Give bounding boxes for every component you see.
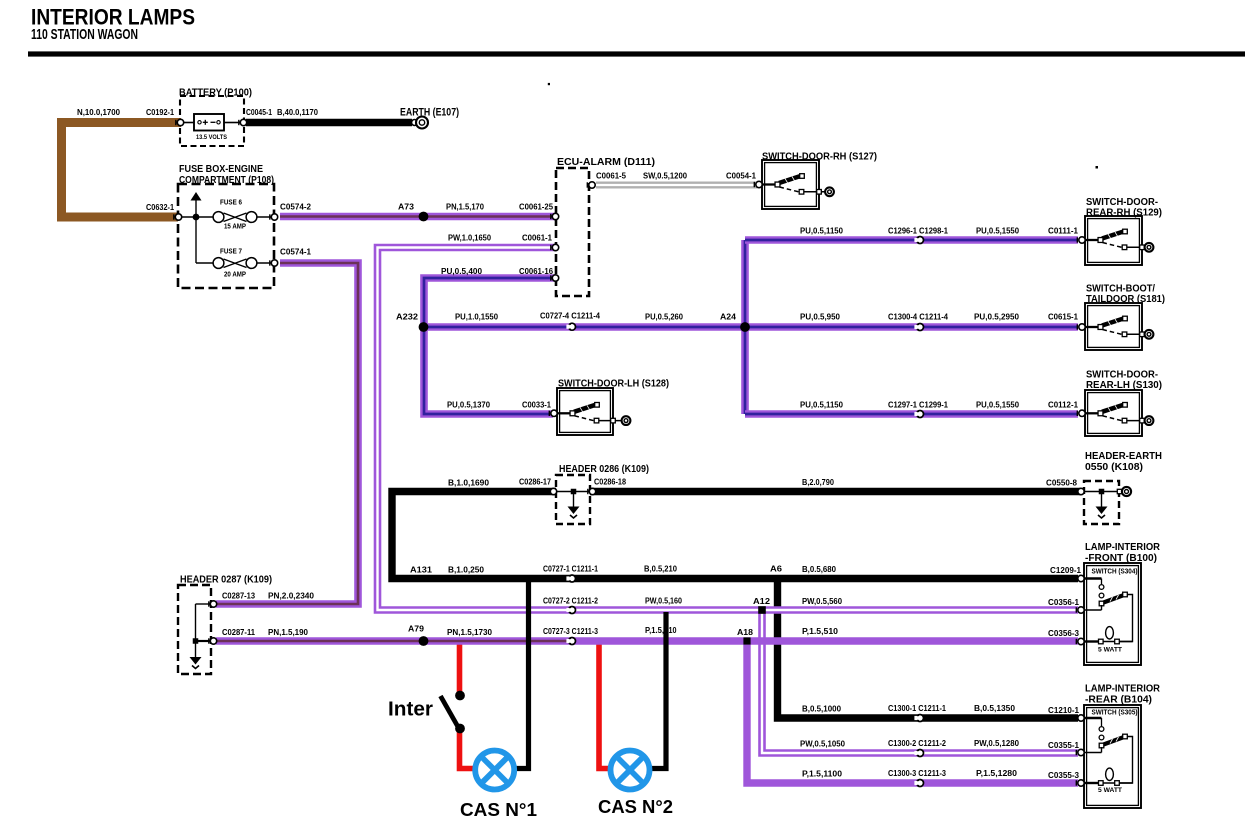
svg-text:B,0.5,210: B,0.5,210: [644, 565, 678, 574]
svg-text:C1209-1: C1209-1: [1050, 566, 1082, 575]
svg-text:C0061-1: C0061-1: [522, 234, 553, 243]
svg-text:Inter: Inter: [388, 699, 433, 721]
svg-text:P,1.5,: P,1.5,: [645, 626, 664, 635]
svg-text:0550 (K108): 0550 (K108): [1085, 462, 1143, 473]
svg-text:C0287-13: C0287-13: [222, 592, 256, 601]
svg-text:PW,0.5,160: PW,0.5,160: [645, 597, 682, 606]
svg-text:C0287-11: C0287-11: [222, 628, 256, 637]
svg-text:C0356-1: C0356-1: [1048, 598, 1080, 607]
svg-text:C0355-1: C0355-1: [1048, 741, 1080, 750]
svg-text:A73: A73: [398, 203, 415, 212]
svg-text:PN,1.5,170: PN,1.5,170: [446, 203, 485, 212]
svg-text:A232: A232: [396, 313, 419, 322]
svg-text:P,1.5,1280: P,1.5,1280: [976, 769, 1018, 778]
svg-text:TAILDOOR (S181): TAILDOOR (S181): [1086, 294, 1165, 305]
svg-text:C1300-4 C1211-4: C1300-4 C1211-4: [888, 313, 949, 322]
svg-text:C0355-3: C0355-3: [1048, 771, 1080, 780]
svg-text:FUSE BOX-ENGINE: FUSE BOX-ENGINE: [179, 164, 263, 175]
svg-text:SWITCH (S304): SWITCH (S304): [1092, 569, 1138, 576]
svg-text:20 AMP: 20 AMP: [224, 272, 246, 279]
svg-text:C1210-1: C1210-1: [1048, 706, 1080, 715]
svg-text:PU,0.5,1370: PU,0.5,1370: [447, 401, 491, 410]
svg-text:B,40.0,1170: B,40.0,1170: [277, 108, 319, 117]
svg-text:C0550-8: C0550-8: [1046, 479, 1078, 488]
svg-text:A24: A24: [720, 313, 737, 322]
svg-text:REAR-RH (S129): REAR-RH (S129): [1086, 208, 1162, 219]
svg-text:C1300-3 C1211-3: C1300-3 C1211-3: [888, 769, 947, 778]
svg-text:-REAR (B104): -REAR (B104): [1085, 695, 1152, 706]
svg-text:C0054-1: C0054-1: [726, 172, 757, 181]
svg-text:5 WATT: 5 WATT: [1098, 647, 1122, 654]
svg-text:C1297-1 C1299-1: C1297-1 C1299-1: [888, 401, 949, 410]
svg-text:A18: A18: [737, 628, 754, 637]
svg-text:10: 10: [669, 626, 677, 635]
svg-text:SW,0.5,1200: SW,0.5,1200: [643, 172, 688, 181]
svg-text:ECU-ALARM (D111): ECU-ALARM (D111): [557, 157, 655, 168]
svg-text:PU,0.5,400: PU,0.5,400: [441, 267, 483, 276]
svg-text:PW,0.5,1280: PW,0.5,1280: [974, 739, 1020, 748]
svg-text:LAMP-INTERIOR: LAMP-INTERIOR: [1085, 684, 1161, 695]
svg-text:PU,0.5,1550: PU,0.5,1550: [976, 401, 1020, 410]
svg-text:SWITCH-DOOR-RH (S127): SWITCH-DOOR-RH (S127): [762, 152, 877, 163]
svg-text:PU,0.5,950: PU,0.5,950: [800, 313, 841, 322]
svg-text:B,2.0,790: B,2.0,790: [802, 478, 834, 487]
svg-text:COMPARTMENT (P108): COMPARTMENT (P108): [179, 175, 274, 186]
svg-text:P,1.5,1100: P,1.5,1100: [802, 770, 843, 779]
svg-text:FUSE 6: FUSE 6: [220, 200, 242, 207]
svg-text:C0286-18: C0286-18: [594, 478, 626, 487]
svg-text:C1296-1 C1298-1: C1296-1 C1298-1: [888, 227, 949, 236]
svg-text:A79: A79: [408, 625, 425, 634]
svg-text:SWITCH-DOOR-: SWITCH-DOOR-: [1086, 197, 1158, 208]
svg-text:PU,0.5,1550: PU,0.5,1550: [976, 227, 1020, 236]
svg-text:PN,2.0,2340: PN,2.0,2340: [268, 592, 315, 601]
svg-text:C0061-16: C0061-16: [519, 267, 554, 276]
svg-text:C0574-2: C0574-2: [280, 203, 312, 212]
svg-text:C1300-2 C1211-2: C1300-2 C1211-2: [888, 739, 947, 748]
svg-text:C1300-1 C1211-1: C1300-1 C1211-1: [888, 704, 947, 713]
svg-text:HEADER-EARTH: HEADER-EARTH: [1085, 451, 1162, 462]
svg-text:PU,0.5,260: PU,0.5,260: [645, 313, 684, 322]
svg-text:C0045-1: C0045-1: [246, 108, 272, 117]
svg-text:B,0.5,1000: B,0.5,1000: [802, 705, 842, 714]
svg-text:HEADER 0287 (K109): HEADER 0287 (K109): [180, 575, 272, 586]
svg-text:PU,0.5,1150: PU,0.5,1150: [800, 401, 844, 410]
svg-text:C0112-1: C0112-1: [1048, 401, 1079, 410]
svg-text:HEADER 0286 (K109): HEADER 0286 (K109): [559, 464, 649, 475]
svg-text:PN,1.5,190: PN,1.5,190: [268, 628, 309, 637]
svg-text:PU,0.5,1150: PU,0.5,1150: [800, 227, 844, 236]
svg-text:PN,1.5,1730: PN,1.5,1730: [447, 628, 493, 637]
svg-text:SWITCH-DOOR-: SWITCH-DOOR-: [1086, 370, 1158, 381]
svg-text:13.5 VOLTS: 13.5 VOLTS: [196, 135, 227, 141]
svg-text:C0574-1: C0574-1: [280, 248, 312, 257]
svg-text:CAS N°2: CAS N°2: [598, 797, 673, 817]
svg-text:B,1.0,1690: B,1.0,1690: [448, 479, 490, 488]
svg-text:C0111-1: C0111-1: [1048, 227, 1079, 236]
svg-text:PU,0.5,2950: PU,0.5,2950: [974, 313, 1020, 322]
svg-text:N,10.0,1700: N,10.0,1700: [77, 108, 121, 117]
svg-text:15 AMP: 15 AMP: [224, 224, 246, 231]
svg-text:B,0.5,1350: B,0.5,1350: [974, 704, 1016, 713]
svg-text:SWITCH-BOOT/: SWITCH-BOOT/: [1086, 284, 1155, 295]
svg-text:B,1.0,250: B,1.0,250: [448, 566, 485, 575]
svg-text:SWITCH-DOOR-LH (S128): SWITCH-DOOR-LH (S128): [558, 379, 669, 390]
svg-text:C0192-1: C0192-1: [146, 108, 175, 117]
svg-text:110 STATION WAGON: 110 STATION WAGON: [31, 26, 138, 43]
svg-text:A6: A6: [770, 565, 783, 574]
svg-text:PU,1.0,1550: PU,1.0,1550: [455, 313, 499, 322]
svg-text:C0727-4 C1211-4: C0727-4 C1211-4: [540, 312, 601, 321]
svg-text:C0727-3 C1211-3: C0727-3 C1211-3: [543, 627, 598, 636]
svg-text:PW,0.5,1050: PW,0.5,1050: [800, 740, 846, 749]
svg-text:REAR-LH (S130): REAR-LH (S130): [1086, 380, 1162, 391]
svg-text:BATTERY (P100): BATTERY (P100): [179, 88, 252, 99]
svg-text:C0061-25: C0061-25: [519, 203, 554, 212]
svg-text:C0615-1: C0615-1: [1048, 313, 1079, 322]
svg-text:SWITCH (S305): SWITCH (S305): [1092, 710, 1138, 717]
svg-text:FUSE 7: FUSE 7: [220, 249, 242, 256]
svg-text:C0061-5: C0061-5: [596, 172, 627, 181]
svg-text:A131: A131: [410, 566, 433, 575]
svg-text:CAS N°1: CAS N°1: [460, 800, 537, 820]
svg-text:EARTH (E107): EARTH (E107): [400, 107, 459, 119]
svg-text:PW,0.5,560: PW,0.5,560: [802, 597, 843, 606]
svg-text:LAMP-INTERIOR: LAMP-INTERIOR: [1085, 542, 1161, 553]
svg-text:-FRONT (B100): -FRONT (B100): [1085, 553, 1157, 564]
svg-text:PW,1.0,1650: PW,1.0,1650: [448, 234, 492, 243]
svg-text:C0727-1 C1211-1: C0727-1 C1211-1: [543, 565, 598, 574]
svg-text:C0356-3: C0356-3: [1048, 629, 1080, 638]
svg-text:B,0.5,680: B,0.5,680: [802, 565, 837, 574]
svg-text:5 WATT: 5 WATT: [1098, 787, 1122, 794]
svg-text:C0286-17: C0286-17: [519, 478, 551, 487]
svg-text:C0033-1: C0033-1: [522, 401, 552, 410]
svg-text:C0727-2 C1211-2: C0727-2 C1211-2: [543, 597, 598, 606]
svg-text:A12: A12: [753, 597, 771, 606]
svg-text:C0632-1: C0632-1: [146, 203, 175, 212]
svg-text:P,1.5,510: P,1.5,510: [802, 627, 839, 636]
